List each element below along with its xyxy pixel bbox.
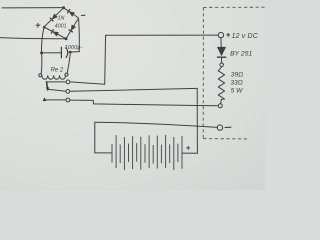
terminal: +12V DC output circle <box>218 32 223 37</box>
diode D1 (bridge top-left, 1N4001) <box>50 14 58 22</box>
svg-text:33Ω: 33Ω <box>230 80 242 87</box>
label: bridge + output polarity <box>36 23 41 28</box>
wire: contact K1 throw line 1 <box>47 81 66 83</box>
terminal: - output circle <box>217 125 222 130</box>
wire: coil right lead up to - rail junction dot <box>67 53 70 73</box>
wire: - rail vertical from bridge - vertex down to cap lead <box>78 19 81 51</box>
bridge rectifier B1 diamond outline <box>44 8 79 39</box>
label: - polarity dash <box>225 126 232 128</box>
svg-text:12 v DC: 12 v DC <box>232 33 259 40</box>
wire: line 3 with jog to resistor bottom node <box>70 100 219 106</box>
wire: line 2 across to battery + riser corner <box>70 88 198 91</box>
wire: capacitor left lead <box>42 52 61 54</box>
diode D4 (bridge bottom-right, 1N4001) <box>69 25 76 33</box>
node: bridge bottom vertex junction <box>65 37 68 40</box>
dashed enclosure bottom edge <box>203 138 247 140</box>
svg-text:5 W: 5 W <box>231 88 243 95</box>
svg-text:1N: 1N <box>58 16 65 22</box>
wire: terminal down to diode anode <box>220 38 222 47</box>
contact K2 terminal circle <box>66 98 70 102</box>
wire: AC input top to bridge top vertex <box>2 7 63 9</box>
svg-text:39Ω: 39Ω <box>231 71 243 78</box>
wire: + rail down to relay coil left terminal <box>40 53 43 74</box>
wire: diode cathode to node circle <box>221 58 223 63</box>
capacitor C1 1000u straight plate <box>60 47 62 59</box>
wire: capacitor right lead to - rail corner <box>68 51 80 54</box>
relay coil Re2 left terminal circle <box>39 74 42 77</box>
wire: battery - wire riser and lead <box>95 122 112 153</box>
node: bridge + vertex dot <box>43 26 46 29</box>
wire: battery + lead to riser <box>182 152 197 154</box>
svg-text:1000µ-: 1000µ- <box>65 45 83 51</box>
node: junction + rail / capacitor dot <box>40 51 43 54</box>
svg-text:Re 2: Re 2 <box>51 67 64 73</box>
battery BT1 cell plates <box>112 135 182 170</box>
wire: battery minus feed across to - terminal <box>95 122 218 127</box>
wire: AC input bottom to bridge bottom vertex <box>0 38 66 39</box>
node: junction dot cap/coil/- rail <box>69 51 72 54</box>
relay coil Re2 right terminal circle <box>65 73 68 76</box>
wire: +12V horizontal feed to output terminal <box>106 34 218 36</box>
wire: battery + riser vertical <box>196 88 198 153</box>
svg-text:BY 251: BY 251 <box>230 51 252 58</box>
diode D5 BY251 <box>217 47 226 57</box>
node: bridge top vertex junction <box>62 6 65 9</box>
diode D2 (bridge bottom-left, 1N4001) <box>51 29 59 36</box>
wire: +12V riser vertical <box>104 35 107 84</box>
contact K1 terminal circle 2 <box>66 90 70 94</box>
dashed enclosure left edge <box>202 7 204 138</box>
svg-text:4001: 4001 <box>55 23 67 29</box>
wire: resistor bottom into node <box>220 99 223 103</box>
wire: bridge + vertex down to filter cap junction <box>41 28 44 53</box>
wire: contact K2 line <box>47 99 66 101</box>
relay contact K2 pole arrow <box>43 97 47 101</box>
resistor R1 39/33 ohm 5W zigzag <box>218 67 224 100</box>
label: + 12 v DC <box>226 33 258 40</box>
label: battery + polarity <box>186 146 190 150</box>
wire: line 1 to +12V riser corner <box>70 82 105 84</box>
diode D3 (bridge top-right, 1N4001) <box>67 9 75 17</box>
relay coil Re2 winding loops <box>42 76 66 80</box>
node: small circle between diode and resistor <box>220 63 224 67</box>
dashed enclosure top edge <box>203 6 265 8</box>
wire: contact K1 moving blade to line 2 <box>48 89 66 91</box>
contact K1 terminal circle 1 <box>66 80 70 84</box>
label: bridge - output polarity <box>81 14 85 16</box>
capacitor C1 1000u curved plate <box>66 47 68 58</box>
node: resistor bottom junction circle <box>218 104 222 108</box>
relay contact K1 pole arrow <box>46 81 49 91</box>
